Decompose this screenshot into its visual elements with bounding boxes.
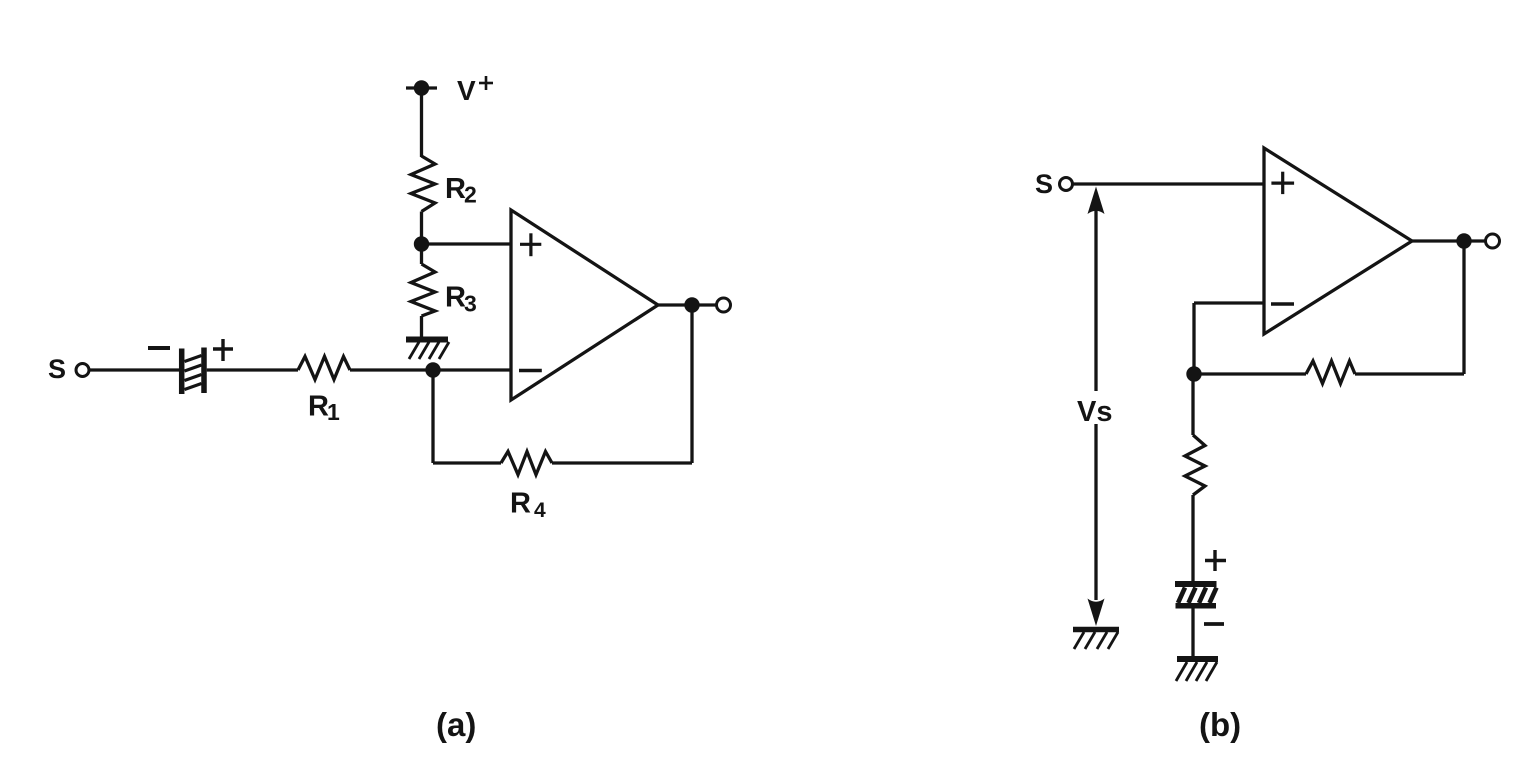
label Vs — [1077, 396, 1112, 428]
svg-text:(b): (b) — [1199, 706, 1241, 743]
ground below Vs arrow — [1073, 630, 1119, 650]
wire Vs arrow lower segment — [1094, 424, 1097, 600]
op-amp U2 minus input mark — [1271, 302, 1294, 306]
wire battery to ground (b) — [1191, 609, 1194, 660]
wire feedback rail right (b) — [1355, 372, 1464, 375]
label S (a) — [48, 354, 66, 384]
wire node to op-amp minus input — [433, 368, 511, 371]
label R1 — [308, 391, 340, 426]
op-amp U1 — [511, 210, 658, 400]
battery cell minus label (b) — [1204, 622, 1224, 626]
svg-text:R: R — [510, 488, 531, 520]
resistor R3 — [411, 264, 435, 316]
op-amp U2 — [1264, 148, 1412, 334]
wire R2 to node — [420, 212, 423, 245]
resistor feedback (b) — [1306, 361, 1355, 384]
battery cell hatching (b) — [1178, 588, 1217, 604]
wire op-amp minus input to corner (b) — [1194, 301, 1264, 304]
svg-text:Vs: Vs — [1077, 396, 1112, 428]
wire node down to vertical resistor (b) — [1191, 374, 1194, 435]
wire R1 to minus node — [350, 368, 433, 371]
wire S to op-amp plus input (b) — [1073, 182, 1264, 185]
battery cell bottom plate (b) — [1176, 603, 1217, 609]
label (a) — [436, 706, 476, 743]
node junction R2-R3 — [414, 236, 429, 251]
svg-text:R: R — [445, 173, 466, 205]
node output terminal (a) open circle — [717, 298, 731, 312]
wire sensor to R1 — [207, 368, 298, 371]
label V+ — [457, 75, 476, 106]
svg-text:R: R — [445, 282, 466, 314]
label R3 — [445, 282, 477, 317]
battery cell plus label (b) — [1205, 550, 1226, 571]
label R2 — [445, 173, 477, 208]
resistor vertical (b) — [1185, 435, 1205, 495]
svg-text:(a): (a) — [436, 706, 476, 743]
node V+ terminal tick — [406, 86, 437, 89]
label S (b) — [1035, 169, 1053, 199]
node V+ terminal dot — [414, 80, 429, 95]
ground below battery (b) — [1176, 659, 1218, 681]
svg-text:1: 1 — [327, 399, 340, 425]
wire feedback rail left (b) — [1194, 372, 1306, 375]
op-amp U1 plus input mark — [520, 233, 541, 256]
node Vs down arrowhead — [1088, 599, 1105, 627]
sensor cell X1 plus label — [213, 339, 233, 361]
sensor cell X1 left plate — [179, 349, 185, 395]
battery cell top plate (b) — [1175, 581, 1217, 587]
svg-text:S: S — [1035, 169, 1053, 199]
resistor R2 — [411, 156, 435, 212]
wire output down to feedback (b) — [1462, 241, 1465, 374]
sensor cell X1 hatching — [185, 356, 202, 390]
svg-text:R: R — [308, 391, 329, 423]
node Vs up arrowhead — [1088, 187, 1105, 215]
resistor R4 — [501, 452, 552, 475]
node minus input junction — [425, 362, 440, 377]
sensor cell X1 right plate — [201, 348, 207, 394]
node feedback junction (b) — [1186, 366, 1201, 381]
node output junction (a) — [684, 297, 699, 312]
svg-text:V: V — [457, 75, 476, 106]
svg-text:3: 3 — [464, 291, 477, 317]
label R4 — [510, 488, 546, 523]
wire feedback rail right segment — [552, 461, 692, 464]
svg-text:S: S — [48, 354, 66, 384]
wire Vs arrow upper segment — [1094, 208, 1097, 391]
node S terminal (a) open circle — [76, 364, 89, 377]
wire node down to feedback rail — [431, 370, 434, 463]
wire feedback rail left segment — [433, 461, 501, 464]
wire node to R3 — [420, 244, 423, 264]
wire op-amp output — [658, 303, 716, 306]
wire node to op-amp plus input — [422, 242, 512, 245]
label V+ plus sign — [479, 76, 493, 90]
wire V+ to R2 — [420, 88, 423, 157]
wire corner down to feedback node (b) — [1192, 303, 1195, 374]
svg-text:2: 2 — [464, 182, 477, 208]
wire op-amp output (b) — [1412, 239, 1486, 242]
node output terminal (b) open circle — [1486, 234, 1500, 248]
svg-text:4: 4 — [534, 499, 546, 522]
node S terminal (b) open circle — [1060, 178, 1073, 191]
op-amp U2 plus input mark — [1271, 172, 1294, 194]
ground below R3 — [406, 340, 449, 360]
op-amp U1 minus input mark — [519, 369, 542, 372]
label (b) — [1199, 706, 1241, 743]
node output junction (b) — [1456, 233, 1471, 248]
sensor cell X1 minus label — [148, 346, 170, 350]
wire R3 to ground — [420, 316, 423, 337]
wire feedback up to output — [690, 305, 693, 463]
resistor R1 — [298, 357, 350, 380]
wire resistor to battery (b) — [1191, 495, 1194, 581]
wire S to sensor — [89, 368, 179, 371]
